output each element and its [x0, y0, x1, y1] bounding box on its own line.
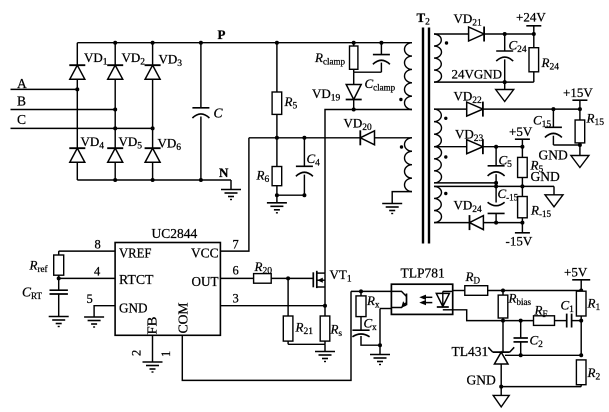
optocoupler U2 TLP781 box — [391, 284, 452, 314]
pin number 4 — [94, 265, 101, 279]
capacitor C-15 — [488, 186, 505, 222]
pin 1 wire (COM) — [182, 291, 351, 380]
svg-text:GND: GND — [539, 148, 568, 163]
label VD20 — [344, 116, 373, 134]
secondary winding 2 (15V) — [434, 109, 442, 147]
label VD22 — [454, 89, 483, 107]
svg-text:6: 6 — [233, 264, 239, 278]
diode VD23 — [467, 139, 483, 154]
secondary winding 2 dot — [444, 117, 447, 120]
pin 2 wire (FB) — [152, 335, 154, 362]
svg-text:GND: GND — [467, 373, 496, 388]
label C2 — [530, 333, 544, 351]
resistor R15 — [575, 109, 585, 145]
wire opto pin 4 to ground — [378, 309, 391, 355]
ground 15V (triangle) — [571, 156, 589, 168]
label CRT — [22, 285, 42, 302]
label Rs — [330, 322, 343, 339]
capacitor C4 — [296, 138, 313, 195]
wire feedback gnd line — [499, 385, 581, 389]
wire N rail (DC bus -) — [77, 179, 231, 181]
resistor R6 — [272, 138, 282, 195]
wire aux winding return — [392, 192, 412, 204]
ground under Cx — [370, 355, 390, 365]
svg-text:VCC: VCC — [191, 247, 219, 262]
primary winding 1 — [405, 43, 413, 110]
wire secondary gnd line lower — [434, 184, 554, 188]
wire bridge column 2 — [114, 43, 116, 180]
wire VCC riser to pin 7 — [220, 138, 249, 251]
wire P rail (DC bus +) — [77, 42, 412, 44]
secondary winding 3 dot — [444, 155, 447, 158]
label Cclamp — [365, 76, 396, 93]
label C1 — [561, 298, 575, 316]
opto LED — [436, 291, 452, 309]
wire phase B input — [11, 108, 118, 112]
terminal +15V — [572, 100, 587, 109]
junction dots on P rail — [113, 41, 279, 45]
resistor Rbias — [498, 291, 508, 353]
label RF — [534, 303, 548, 320]
svg-text:GND: GND — [531, 169, 560, 184]
ground pin 2 — [143, 362, 163, 372]
wire -15V rail — [434, 221, 524, 225]
ground at N — [221, 190, 241, 200]
resistor Rclamp — [350, 41, 358, 72]
label 24VGND — [452, 67, 503, 82]
svg-text:A: A — [17, 76, 27, 91]
wire phase C input — [11, 126, 155, 130]
junction dots on N rail — [113, 178, 203, 182]
pin number 2 — [130, 350, 144, 356]
svg-text:VREF: VREF — [119, 247, 152, 262]
resistor RF — [534, 316, 567, 326]
svg-text:7: 7 — [233, 238, 239, 252]
secondary winding 4 (-15V) — [434, 186, 442, 222]
svg-text:24VGND: 24VGND — [452, 67, 503, 82]
capacitor C24 — [496, 34, 513, 82]
wire bridge column 3 — [152, 43, 154, 180]
terminal -15V — [515, 223, 530, 233]
terminal +24V — [526, 26, 541, 34]
resistor R1 — [576, 291, 586, 356]
ground under Rs — [315, 344, 335, 361]
diode VD21 — [469, 27, 485, 42]
label VD1 — [84, 50, 108, 68]
label T2 — [417, 10, 431, 28]
resistor RD — [453, 286, 584, 296]
wire R21/Rs bottom — [288, 343, 325, 345]
wire 5V rail — [434, 145, 524, 149]
label VD6 — [158, 136, 182, 154]
label R20 — [254, 259, 273, 277]
pin COM text — [177, 302, 192, 334]
capacitor CRT — [50, 278, 68, 316]
secondary winding 3 (5V) — [434, 147, 442, 183]
label Rbias — [508, 291, 532, 308]
svg-text:4: 4 — [94, 265, 101, 279]
pin number 3 — [233, 292, 239, 306]
wire snubber to drain — [325, 108, 412, 274]
resistor Rref — [54, 251, 64, 278]
node P — [218, 27, 226, 42]
pin GND text — [119, 302, 148, 317]
svg-text:3: 3 — [233, 292, 239, 306]
label R5 — [284, 94, 298, 112]
label +15V — [563, 85, 593, 100]
svg-text:OUT: OUT — [192, 275, 219, 290]
label R5 output — [530, 158, 544, 176]
label C5 — [499, 153, 513, 171]
capacitor Cclamp — [373, 41, 390, 72]
label Rx — [366, 293, 380, 310]
resistor Rs — [320, 316, 330, 344]
wire bridge column 1 — [76, 43, 78, 180]
svg-text:TL431: TL431 — [452, 344, 489, 359]
wire N to ground — [230, 180, 232, 190]
primary winding 1 dot — [399, 98, 402, 101]
label Rclamp — [314, 50, 345, 67]
svg-text:N: N — [219, 165, 229, 180]
svg-text:+15V: +15V — [563, 85, 593, 100]
label VT1 — [330, 267, 352, 285]
label -15V — [506, 234, 533, 249]
secondary winding 1 (24V) — [434, 34, 442, 82]
label R1 — [587, 296, 601, 314]
ground aux winding — [382, 204, 402, 214]
svg-text:COM: COM — [177, 302, 192, 334]
label VD19 — [312, 86, 341, 104]
resistor R5 (startup) — [272, 43, 282, 138]
svg-text:FB: FB — [146, 317, 161, 335]
wire VCC node line — [249, 136, 412, 140]
diode VD1 — [69, 65, 85, 79]
secondary winding 1 dot — [445, 41, 448, 44]
svg-text:+5V: +5V — [564, 265, 588, 280]
label Cx — [364, 316, 378, 333]
label VD21 — [454, 11, 483, 29]
svg-text:RTCT: RTCT — [119, 273, 154, 288]
diode VD3 — [145, 65, 161, 79]
wire source to pin 3 — [220, 287, 327, 316]
capacitor C2 — [514, 321, 528, 356]
ground 24V (triangle) — [496, 82, 514, 101]
opto phototransistor — [391, 291, 406, 307]
label GND (15V) — [539, 148, 568, 163]
svg-text:C: C — [17, 112, 26, 127]
wire phase A input — [11, 87, 80, 91]
pin number 6 — [233, 264, 239, 278]
diode VD20 — [360, 130, 374, 145]
transistor VT1 (MOSFET) — [313, 271, 325, 288]
pin 4 wire — [57, 276, 115, 280]
label TLP781 — [401, 266, 445, 281]
svg-text:B: B — [17, 94, 26, 109]
label Rref — [29, 258, 48, 275]
resistor Rx — [356, 291, 366, 330]
label C15 — [533, 113, 551, 131]
label GND (5V) — [531, 169, 560, 184]
svg-text:C: C — [214, 106, 224, 121]
label C4 — [307, 151, 321, 169]
capacitor C (bus filter) — [192, 43, 209, 180]
diode VD24 — [470, 215, 484, 230]
wire R6/C4 bottom — [275, 193, 307, 197]
svg-text:-15V: -15V — [506, 234, 533, 249]
pin 6 wire and resistor R20 — [220, 274, 313, 284]
wire Rclamp-Cclamp join — [354, 71, 382, 73]
svg-text:UC2844: UC2844 — [152, 226, 198, 241]
label C-15 — [498, 186, 519, 203]
opto light arrows — [419, 295, 432, 306]
resistor R2 — [576, 360, 586, 387]
node C — [17, 112, 26, 127]
pin 8 wire — [59, 250, 115, 252]
wire 24V ground rail — [434, 80, 534, 84]
wire 24V rail — [434, 32, 536, 36]
wire TL431 ref line — [505, 353, 583, 357]
label +5V (secondary) — [509, 124, 533, 139]
ground under CRT — [49, 317, 69, 327]
pin RTCT text — [119, 273, 154, 288]
svg-text:5: 5 — [87, 292, 93, 306]
resistor R-15 — [518, 186, 528, 222]
primary winding 2 (aux) — [405, 138, 413, 192]
svg-text:TLP781: TLP781 — [401, 266, 445, 281]
diode VD6 — [145, 148, 161, 162]
wire secondary gnd line upper — [434, 181, 498, 185]
node B — [17, 94, 26, 109]
label TL431 — [452, 344, 489, 359]
label VD5 — [119, 134, 143, 152]
op-amp U1 UC2844 box — [115, 243, 220, 336]
label C — [214, 106, 224, 121]
label R6 — [256, 168, 270, 186]
ground feedback (triangle) — [493, 387, 509, 407]
resistor R5 output — [518, 147, 528, 187]
pin FB text — [146, 317, 161, 335]
diode VD4 — [69, 148, 85, 162]
pin number 7 — [233, 238, 239, 252]
label GND (feedback) — [467, 373, 496, 388]
wire opto output to RF line — [453, 310, 534, 323]
capacitor C1 — [567, 314, 584, 328]
terminal +5V (secondary) — [515, 139, 530, 147]
pin 5 wire — [94, 306, 115, 317]
svg-text:1: 1 — [159, 351, 173, 357]
wire COM to opto — [351, 289, 391, 293]
svg-text:+24V: +24V — [516, 10, 546, 25]
svg-text:+5V: +5V — [509, 124, 533, 139]
resistor R21 — [283, 278, 293, 344]
label VD24 — [454, 198, 483, 216]
svg-text:8: 8 — [95, 238, 101, 252]
label +5V (feedback) — [564, 265, 588, 280]
label RD — [465, 269, 481, 286]
resistor R24 — [529, 34, 539, 82]
label VD3 — [159, 52, 183, 70]
label +24V — [516, 10, 546, 25]
label VD2 — [122, 50, 146, 68]
node N — [219, 165, 229, 180]
pin VREF text — [119, 247, 152, 262]
secondary winding 4 dot — [444, 192, 447, 195]
label VD4 — [81, 134, 105, 152]
diode VD5 — [107, 148, 123, 162]
capacitor Cx — [352, 330, 380, 345]
svg-text:GND: GND — [119, 302, 148, 317]
label R24 — [541, 55, 560, 73]
wire 15V rail — [434, 107, 582, 111]
pin number 8 — [95, 238, 101, 252]
label R15 — [586, 111, 605, 129]
diode VD22 — [467, 102, 483, 117]
label R21 — [295, 320, 314, 338]
ground pin 5 — [84, 317, 104, 327]
label R-15 — [530, 203, 551, 220]
terminal +5V (feedback) — [572, 280, 590, 291]
transformer core — [423, 28, 429, 244]
shunt regulator TL431 — [488, 347, 514, 386]
svg-text:2: 2 — [130, 350, 144, 356]
ground 5V (triangle) — [545, 186, 563, 206]
diode VD2 — [107, 65, 123, 79]
label C24 — [509, 38, 527, 56]
primary winding 2 dot — [400, 145, 403, 148]
label VD23 — [455, 127, 484, 145]
label UC2844 — [152, 226, 198, 241]
wire C15/R15 to ground — [553, 143, 582, 156]
label R2 — [587, 365, 601, 383]
pin number 1 — [159, 351, 173, 357]
svg-text:P: P — [218, 27, 226, 42]
diode VD19 — [346, 72, 362, 109]
pin VCC text — [191, 247, 219, 262]
pin number 5 — [87, 292, 93, 306]
ground under R6 — [267, 195, 287, 213]
node A — [17, 76, 27, 91]
capacitor C15 — [545, 109, 562, 145]
pin OUT text — [192, 275, 219, 290]
capacitor C5 — [488, 147, 505, 183]
